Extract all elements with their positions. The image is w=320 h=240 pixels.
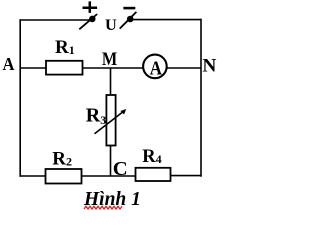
terminal post right (-) with dot — [127, 16, 134, 23]
resistor R1 body — [46, 61, 83, 75]
rheostat R3 arrow — [95, 112, 124, 134]
wire R3 down to C — [110, 146, 112, 177]
svg-text:R1: R1 — [55, 37, 75, 58]
terminal post left (+) with dot — [89, 16, 96, 23]
wire A to R1 — [20, 67, 47, 69]
caption red squiggle underline — [84, 206, 122, 209]
wire top-right segment — [131, 19, 202, 21]
wire right vertical — [200, 19, 202, 177]
wire top-left segment — [20, 19, 93, 21]
wire R1 to ammeter through node M — [83, 67, 144, 69]
svg-text:A: A — [3, 54, 15, 74]
svg-text:Hình 1: Hình 1 — [83, 189, 141, 210]
terminal left diagonal stroke — [79, 14, 97, 29]
svg-text:M: M — [102, 50, 117, 70]
wire M down to R3 — [110, 68, 112, 96]
wire left vertical — [19, 19, 21, 177]
resistor R4 body — [136, 168, 171, 181]
wire R4 to bottom-right corner — [171, 175, 202, 177]
svg-text:R2: R2 — [52, 148, 72, 169]
svg-text:R4: R4 — [142, 147, 161, 167]
plus sign — [83, 1, 98, 13]
svg-text:R3: R3 — [86, 105, 106, 127]
svg-text:U: U — [105, 17, 117, 34]
minus sign — [123, 7, 135, 10]
terminal right diagonal stroke — [120, 12, 137, 29]
svg-text:C: C — [113, 158, 128, 180]
ammeter A1 circle — [143, 55, 167, 79]
wire R2 to R4 through node C — [82, 175, 136, 177]
resistor R2 body — [46, 169, 82, 184]
wire bottom-left to R2 — [20, 175, 46, 177]
svg-text:A: A — [150, 59, 162, 80]
svg-text:N: N — [202, 56, 216, 77]
wire ammeter to N — [167, 67, 202, 69]
rheostat R3 body — [106, 95, 115, 146]
